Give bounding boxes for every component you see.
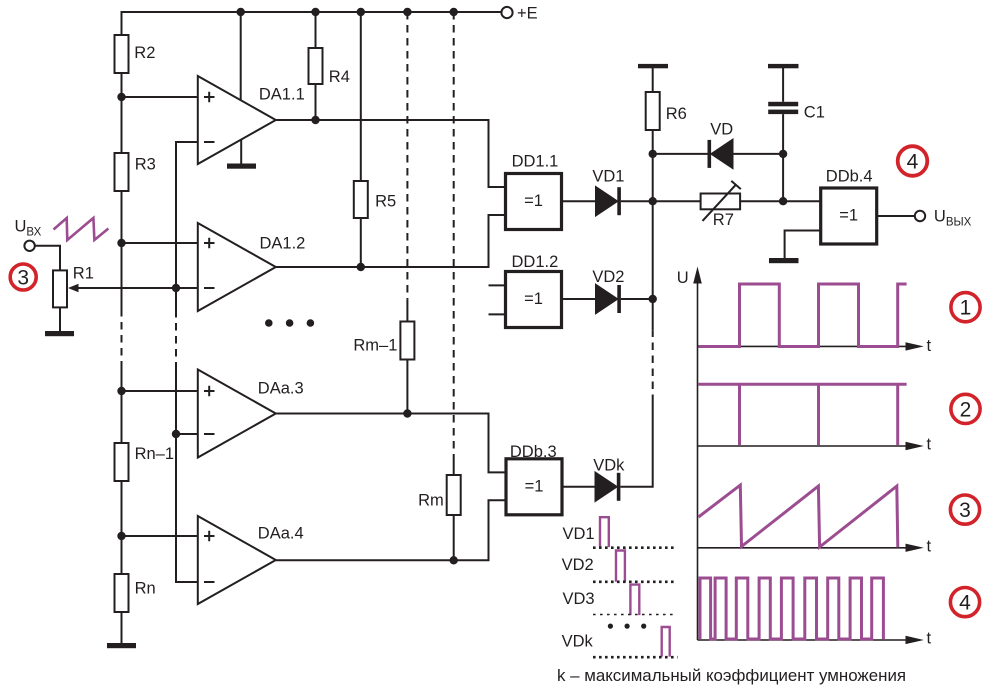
circled 4 top right [898, 146, 928, 176]
node R6 VD [649, 150, 657, 158]
wire left rail R3 to dashed [121, 191, 123, 309]
svg-text:VD2: VD2 [562, 556, 594, 574]
wire left rail Rn-1 to Rn [121, 481, 123, 574]
wire DD1.2 out to VD2 [562, 298, 597, 300]
pulse VD1 [600, 517, 609, 547]
node divider DAa.3 [117, 387, 125, 395]
resistor R2 [115, 35, 129, 73]
node DA1.2 out R5 [357, 263, 365, 271]
svg-text:R2: R2 [134, 44, 155, 62]
wire DA1.1 gnd stub [240, 140, 242, 164]
node DA1.1 out R4 [311, 116, 319, 124]
wire VDk to bus corner [621, 402, 653, 487]
node divider DA1.2 [117, 239, 125, 247]
svg-text:Rm: Rm [418, 492, 444, 510]
wire DA1.2 output to DD1.1 lower input [276, 215, 506, 267]
node top rail R4 [311, 8, 319, 16]
wire DAa.3 output to DDb.3 [276, 414, 506, 473]
svg-text:Rn: Rn [135, 580, 156, 598]
circled 2 [951, 394, 980, 423]
node bus DAa.3 [172, 430, 180, 438]
svg-text:3: 3 [959, 499, 971, 522]
terminal Uvx input [24, 241, 34, 251]
wire DDb.4 output [877, 215, 915, 217]
svg-text:VD1: VD1 [592, 168, 624, 186]
svg-text:=1: =1 [524, 192, 543, 210]
svg-text:DA1.1: DA1.1 [259, 86, 305, 104]
U axis vertical [698, 276, 909, 640]
node DAa.3 out Rm-1 [403, 409, 411, 417]
dotted baseline 2 [593, 580, 677, 583]
wire inverting bus dashed [175, 310, 177, 366]
wire DAa.4 +input [122, 535, 198, 537]
node top rail Rm [450, 8, 458, 16]
svg-text:2: 2 [960, 398, 972, 421]
node divider DAa.4 [117, 532, 125, 540]
svg-text:+E: +E [517, 5, 538, 23]
xor gate DD1.2 [506, 272, 562, 328]
pulse VD2 [616, 551, 625, 582]
node top rail R5 [357, 8, 365, 16]
circled 1 [951, 293, 980, 322]
circled 3 left [10, 264, 36, 290]
svg-text:R4: R4 [329, 68, 350, 86]
ground bottom of divider [107, 643, 136, 648]
circled 4 [950, 588, 979, 617]
wire DDb.3 out to VDk [562, 486, 596, 488]
svg-text:t: t [927, 436, 932, 454]
t axis graph3 [698, 547, 909, 549]
svg-text:DDb.3: DDb.3 [510, 443, 557, 461]
pulse VDk [662, 627, 670, 657]
svg-text:DAa.4: DAa.4 [258, 525, 304, 543]
wire left divider rail segment R2-R3 [121, 73, 123, 153]
node top rail DA1.1 supply [237, 8, 245, 16]
wire DA1.1 supply from rail [240, 12, 242, 100]
dotted baseline 4 [593, 656, 678, 659]
diode VD2 [596, 285, 617, 313]
terminal +E [501, 7, 512, 18]
diode VD pointing left [708, 140, 712, 168]
waveform 4 pulse train [700, 578, 883, 639]
svg-text:UВХ: UВХ [15, 218, 42, 239]
t axis graph1 [698, 345, 909, 347]
svg-text:DD1.1: DD1.1 [512, 153, 559, 171]
svg-text:R6: R6 [666, 105, 687, 123]
wire R1 to ground [59, 307, 61, 331]
svg-text:k – максимальный коэффициент у: k – максимальный коэффициент умножения [557, 666, 906, 685]
wire VD1 to bus [621, 200, 653, 202]
wire DDb.4 input2 to ground [785, 231, 821, 259]
node C1 VD [779, 150, 787, 158]
diode VDk [596, 473, 617, 501]
svg-text:4: 4 [907, 151, 919, 174]
wire top supply rail [122, 12, 503, 35]
wire R7 to C1 bottom node [740, 200, 783, 202]
svg-text:3: 3 [17, 267, 29, 290]
node divider DA1.1 [117, 93, 125, 101]
wire Uvx to R1 [35, 246, 60, 271]
svg-text:UВЫХ: UВЫХ [934, 208, 972, 229]
wire summing bus dashed section [652, 331, 654, 402]
wire DA1.1 -input from bus [176, 142, 198, 310]
svg-text:VDk: VDk [562, 633, 594, 651]
wire left rail solid to Rn-1 [121, 368, 123, 443]
svg-text:=1: =1 [839, 207, 858, 225]
waveform 3 sawtooth [699, 485, 898, 547]
wire summing bus solid section [652, 154, 654, 331]
node bus R1 wiper [172, 284, 180, 292]
ground under R1 [45, 331, 74, 336]
U axis arrowhead [693, 267, 702, 284]
wire DA1.2 -input stub [176, 287, 198, 289]
svg-text:U: U [677, 269, 689, 287]
svg-text:DA1.2: DA1.2 [260, 235, 306, 253]
wire DD1.1 out to VD1 [562, 200, 597, 202]
wire left rail dashed section [121, 309, 123, 368]
svg-text:Rm–1: Rm–1 [353, 337, 397, 355]
svg-text:VD: VD [710, 121, 733, 139]
node C1 R7 [779, 197, 787, 205]
t arrowheads [906, 342, 924, 644]
wire DA1.2 +input [122, 242, 198, 244]
node DAa.4 out Rm [450, 556, 458, 564]
op-amp DA1.1 [198, 76, 276, 164]
op-amp DA1.2 [198, 223, 276, 311]
variable resistor R7 [701, 194, 741, 210]
op-amp DAa.4 [198, 516, 276, 604]
wire DA1.1 output to DD1.1 [276, 120, 506, 187]
xor gate DDb.4 [821, 188, 877, 244]
svg-text:VD1: VD1 [563, 525, 595, 543]
svg-text:R1: R1 [73, 265, 94, 283]
wire DAa.4 output to DDb.3 lower input [276, 500, 506, 560]
op-amp DAa.3 [198, 370, 276, 458]
svg-text:Rn–1: Rn–1 [135, 445, 174, 463]
svg-text:=1: =1 [525, 478, 544, 496]
dotted baseline 3 thin [593, 614, 677, 616]
svg-text:VD3: VD3 [563, 590, 595, 608]
svg-text:R7: R7 [713, 211, 734, 229]
R1 wiper arrow [77, 287, 176, 289]
diode VD1 [596, 187, 617, 215]
svg-text:R3: R3 [135, 156, 156, 174]
terminal Uvyh [915, 211, 925, 221]
svg-text:t: t [927, 538, 932, 556]
waveform 2 square wave [699, 384, 907, 445]
wire DD1.2 lower stub [489, 313, 506, 315]
svg-text:C1: C1 [804, 104, 825, 122]
circled 3 [950, 495, 979, 524]
t axis graph4 [698, 639, 909, 641]
ellipsis between comparators [265, 319, 314, 327]
resistor Rm with dashed upper lead [453, 12, 455, 455]
resistor Rn [115, 574, 129, 612]
wire DD1.2 upper stub [489, 284, 506, 286]
xor gate DDb.3 [506, 459, 562, 515]
resistor R3 [115, 153, 129, 191]
wire bus node to R7 [653, 200, 701, 202]
resistor R6 with leads [652, 68, 654, 92]
svg-text:R5: R5 [375, 193, 396, 211]
svg-text:t: t [927, 337, 932, 355]
ground DDb.4 [769, 258, 799, 263]
svg-text:4: 4 [959, 592, 971, 615]
wire C1 node down to R7 line [782, 154, 784, 201]
xor gate DD1.1 [506, 174, 562, 230]
t axis graph2 [698, 445, 909, 447]
svg-text:VD2: VD2 [592, 268, 624, 286]
resistor Rm-1 with dashed upper lead [406, 12, 408, 299]
node bus VD2 [649, 295, 657, 303]
potentiometer R1 [53, 270, 67, 307]
wire left rail to ground [121, 612, 123, 643]
wire R6 node to VD [653, 153, 708, 155]
sawtooth input squiggle [54, 218, 109, 240]
node bus VD1 R7 [649, 197, 657, 205]
resistor Rn-1 [115, 443, 129, 481]
svg-text:DAa.3: DAa.3 [258, 380, 304, 398]
svg-text:t: t [927, 630, 932, 648]
ground DA1.1 [227, 164, 256, 169]
pulse VD3 [630, 585, 639, 616]
node top rail Rm-1 [403, 8, 411, 16]
wire DA1.1 +input [122, 96, 198, 98]
svg-text:DD1.2: DD1.2 [512, 253, 559, 271]
resistor R5 with leads [360, 12, 362, 181]
wire VD to C1 node [733, 153, 784, 155]
wire DAa.3 -input stub [176, 433, 198, 435]
svg-text:VDk: VDk [593, 457, 625, 475]
svg-text:=1: =1 [524, 290, 543, 308]
wire inverting bus lower [176, 366, 198, 582]
resistor R4 with leads [315, 12, 317, 48]
ellipsis pulse chart [608, 624, 647, 629]
power bar above R6 [638, 64, 668, 68]
capacitor C1 [782, 68, 784, 102]
dotted baseline 1 [593, 546, 677, 549]
svg-text:DDb.4: DDb.4 [826, 168, 873, 186]
waveform 1 square wave [699, 284, 907, 347]
wire node to DDb.4 input1 [783, 200, 821, 202]
power bar above C1 [768, 64, 799, 68]
wire VD2 to bus [621, 298, 653, 300]
svg-text:1: 1 [960, 297, 972, 320]
wire DAa.3 +input [122, 390, 198, 392]
